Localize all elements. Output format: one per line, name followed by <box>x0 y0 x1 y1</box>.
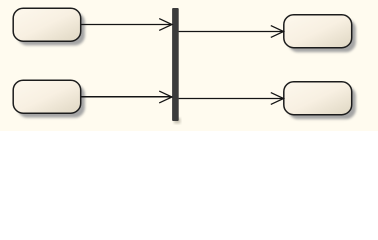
control flow A1 to bar : wire <box>81 24 172 26</box>
arrowhead into B2 <box>271 93 284 105</box>
shadow of activity A1 <box>17 12 85 45</box>
activity node A2 (bottom-left) <box>13 80 81 113</box>
arrowhead into B1 <box>271 26 284 38</box>
control flow A2 to bar : wire <box>81 96 172 98</box>
activity node B2 (bottom-right) <box>284 82 352 115</box>
activity node A1 (top-left) <box>13 8 81 41</box>
arrowhead into bar (bottom) <box>159 91 172 103</box>
activity node B1 (top-right) <box>284 15 352 48</box>
shadow of activity B1 <box>288 19 356 52</box>
control flow bar to B1 : wire <box>179 31 284 33</box>
arrowhead into bar (top) <box>159 19 172 31</box>
shadow of activity A2 <box>17 85 85 118</box>
control flow bar to B2 : wire <box>179 98 284 100</box>
diagram background <box>0 0 378 131</box>
shadow of activity B2 <box>288 86 356 119</box>
synchronization bar (fork/join) <box>172 8 179 121</box>
shadow of synchronization bar (bottom tip only) <box>174 118 180 124</box>
